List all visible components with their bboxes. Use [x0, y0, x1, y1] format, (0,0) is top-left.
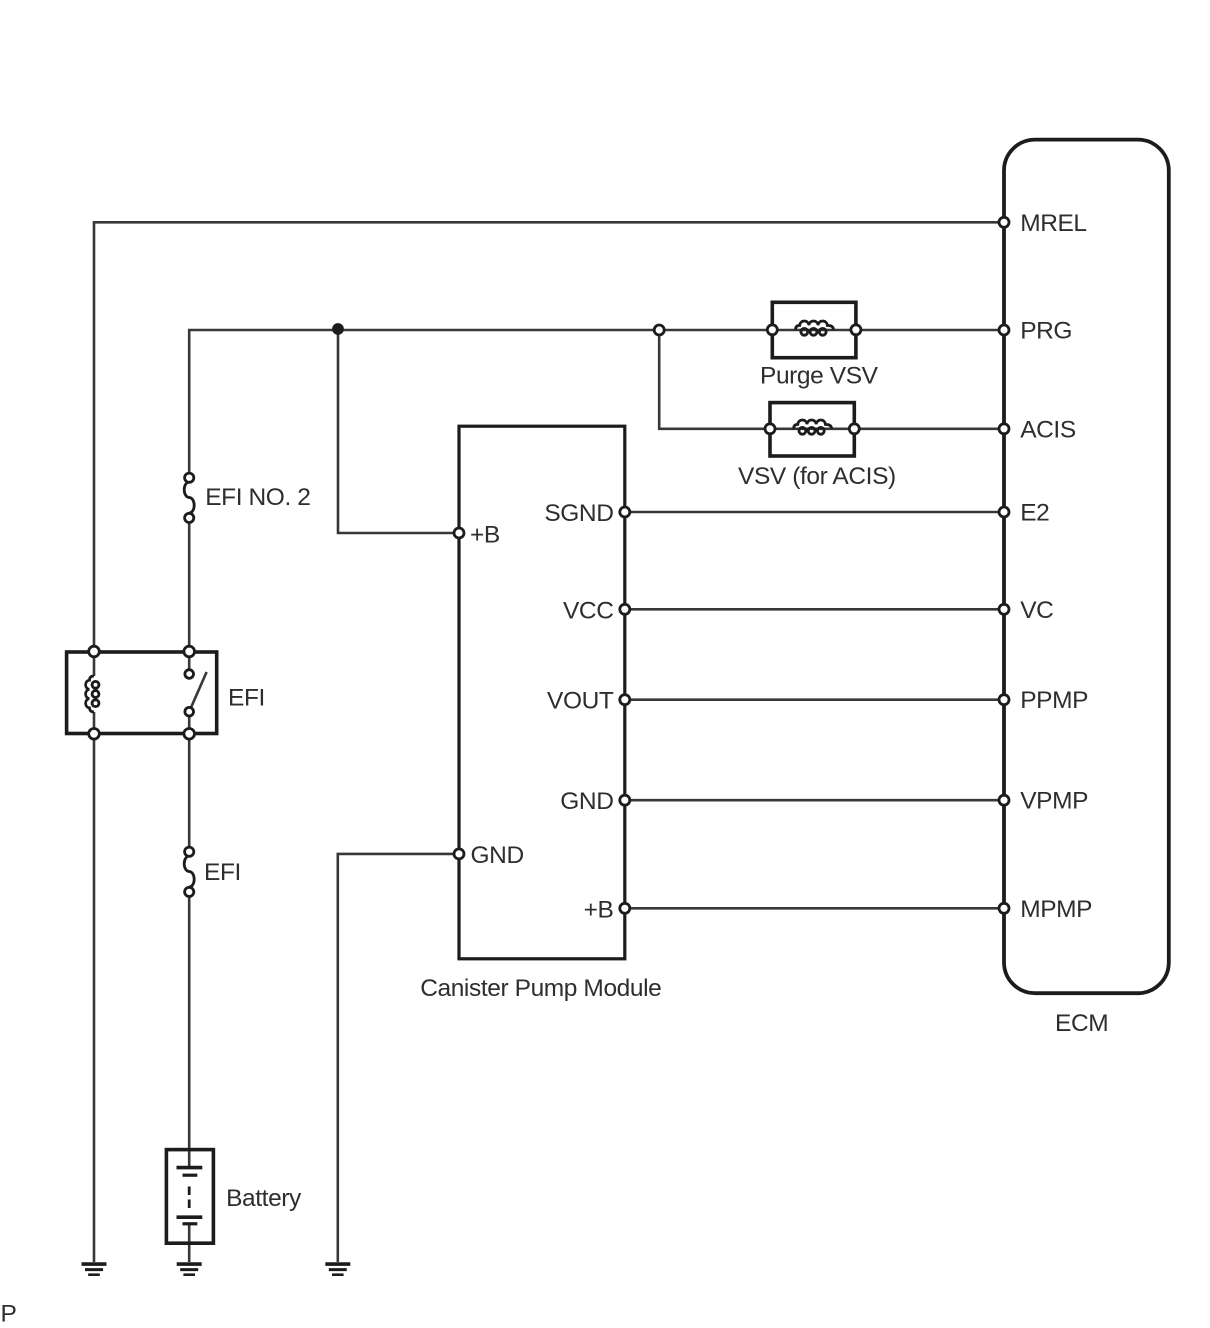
svg-text:EFI: EFI	[204, 859, 241, 886]
svg-text:ACIS: ACIS	[1020, 416, 1076, 443]
svg-text:SGND: SGND	[544, 500, 613, 527]
svg-text:EFI NO. 2: EFI NO. 2	[205, 484, 310, 511]
svg-text:Battery: Battery	[226, 1185, 302, 1212]
svg-text:ECM: ECM	[1055, 1010, 1108, 1037]
svg-text:MPMP: MPMP	[1020, 896, 1092, 923]
svg-text:MREL: MREL	[1020, 210, 1086, 237]
svg-text:GND: GND	[471, 842, 524, 869]
svg-text:EFI: EFI	[228, 685, 265, 712]
svg-text:VOUT: VOUT	[547, 688, 614, 715]
svg-text:+B: +B	[470, 522, 500, 549]
svg-text:Purge VSV: Purge VSV	[760, 362, 879, 389]
svg-text:P: P	[1, 1301, 17, 1328]
svg-text:VSV (for ACIS): VSV (for ACIS)	[738, 463, 896, 490]
svg-text:PPMP: PPMP	[1020, 687, 1088, 714]
svg-text:VPMP: VPMP	[1020, 788, 1088, 815]
svg-text:+B: +B	[584, 896, 614, 923]
svg-text:GND: GND	[560, 788, 613, 815]
svg-text:Canister Pump Module: Canister Pump Module	[420, 975, 661, 1002]
svg-text:VCC: VCC	[563, 597, 614, 624]
svg-text:E2: E2	[1020, 500, 1049, 527]
svg-text:PRG: PRG	[1020, 318, 1072, 345]
svg-text:VC: VC	[1020, 597, 1053, 624]
